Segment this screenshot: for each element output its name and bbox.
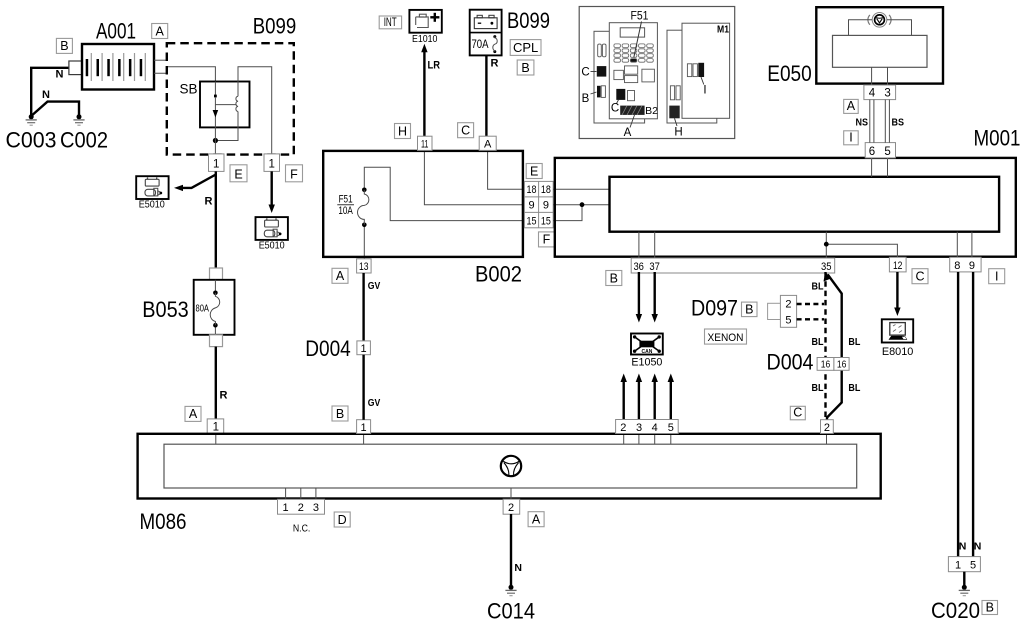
svg-text:1: 1	[955, 559, 961, 571]
svg-text:B: B	[986, 600, 994, 614]
wire GV D004 to M086	[362, 355, 364, 420]
M001 bottom pin row 36 37 ... 35	[631, 258, 835, 273]
wires pins 18/9/15 into M001	[553, 188, 609, 190]
svg-text:F51: F51	[631, 9, 649, 23]
svg-text:BS: BS	[892, 117, 905, 129]
illustration relay cluster	[614, 66, 655, 83]
icon box E8010 (diagnostic socket)	[882, 319, 913, 342]
svg-text:36: 36	[633, 261, 644, 273]
letter box I (pins 8/9)	[989, 269, 1005, 284]
connector D004 pins 16/16	[817, 358, 849, 371]
svg-text:B099: B099	[507, 8, 550, 33]
svg-text:B: B	[60, 39, 68, 53]
pin 8 9 box (M001)	[950, 257, 981, 272]
svg-text:2: 2	[785, 299, 791, 311]
wire A001 pin to B099 box edge	[154, 59, 166, 61]
illustration left panel	[594, 31, 645, 123]
svg-text:A: A	[847, 99, 856, 113]
svg-text:4: 4	[652, 422, 658, 434]
steering module M086 outline	[138, 434, 881, 499]
wires M001 pins 8/9	[956, 232, 958, 258]
wire N to ground C014	[510, 514, 512, 587]
connector grid pins 18/9/15	[524, 181, 553, 227]
wire R from B053 to M086 pin 1	[215, 347, 217, 420]
label F51 with leader line	[631, 9, 649, 58]
svg-text:80A: 80A	[196, 303, 210, 315]
switch contact in SB	[213, 82, 219, 128]
svg-text:E: E	[234, 168, 242, 182]
svg-text:A: A	[532, 513, 541, 527]
svg-text:B: B	[610, 271, 618, 285]
letter box H	[395, 124, 411, 139]
svg-text:15: 15	[527, 215, 537, 227]
fuse 70A inside B099	[472, 35, 498, 53]
junction node on switch wire	[213, 138, 218, 143]
arrow CAN to pin 5 (M086)	[668, 374, 674, 420]
wire F51 fuse to pin 15	[364, 167, 524, 220]
wire A001 lower pin into B099 to SB switch	[154, 67, 215, 82]
svg-text:3: 3	[884, 88, 890, 100]
fuse holder B053 top connector	[210, 268, 223, 280]
svg-text:9: 9	[969, 260, 975, 272]
pin 1 5 box (C020)	[948, 557, 980, 572]
svg-text:15: 15	[541, 215, 551, 227]
svg-text:B: B	[521, 61, 529, 75]
svg-text:F51: F51	[339, 193, 353, 205]
svg-text:5: 5	[884, 146, 890, 158]
letter box B (CPL)	[517, 60, 534, 75]
letter box A (M086 pin1)	[185, 406, 201, 421]
svg-text:37: 37	[649, 261, 660, 273]
box label INT	[379, 16, 401, 29]
pin 6 5 box (M001 top)	[865, 143, 895, 158]
icon box E1010	[409, 10, 441, 33]
svg-text:A: A	[624, 127, 632, 139]
letter box A (A001)	[152, 24, 168, 39]
svg-text:C: C	[581, 67, 589, 79]
letter box B (36/37)	[606, 271, 622, 286]
svg-text:B099: B099	[253, 13, 297, 38]
svg-text:F: F	[290, 168, 298, 182]
svg-text:E8010: E8010	[882, 346, 914, 358]
letter box C (pin 2 M086)	[790, 406, 805, 420]
svg-text:A: A	[189, 407, 198, 421]
illustration connector C (board) with label	[611, 89, 635, 115]
svg-text:A: A	[156, 24, 165, 38]
letter box D	[334, 512, 350, 527]
arrow CAN to pin 2 (M086)	[621, 374, 627, 420]
fuse B053 body	[194, 280, 235, 335]
svg-text:B002: B002	[475, 262, 522, 287]
connector D097 pins 2/5	[768, 295, 797, 327]
solid wire BL from pin 35 with arrow	[824, 272, 842, 420]
letter box A (E050)	[844, 99, 859, 113]
letter box B (M086 pin 1)	[332, 406, 348, 421]
relay coil in SB	[236, 96, 238, 111]
svg-text:16: 16	[837, 359, 847, 371]
svg-text:3: 3	[313, 502, 319, 514]
svg-text:B: B	[745, 302, 753, 316]
letter box F (connector)	[539, 232, 555, 247]
svg-text:C: C	[915, 270, 924, 284]
svg-text:E5010: E5010	[259, 240, 285, 252]
connector D004 pin 1	[357, 341, 371, 355]
svg-text:SB: SB	[179, 82, 197, 97]
svg-text:3: 3	[636, 422, 642, 434]
svg-text:C014: C014	[487, 599, 535, 624]
illustration right back panel	[667, 30, 717, 123]
svg-text:B053: B053	[142, 297, 189, 322]
wire fuse bottom to pin 13	[363, 225, 365, 259]
svg-text:6: 6	[869, 146, 875, 158]
letter box E	[230, 165, 247, 182]
arrow pin 12 to E8010	[894, 272, 900, 316]
illustration connector H with label	[669, 106, 682, 139]
svg-text:E5010: E5010	[139, 199, 165, 211]
illustration lower slots	[670, 86, 680, 100]
letter box C (B002)	[458, 123, 474, 138]
ground C003	[26, 114, 37, 125]
svg-text:N.C.: N.C.	[293, 523, 311, 535]
illustration left panel slots	[598, 44, 606, 57]
svg-text:I: I	[703, 85, 706, 97]
svg-text:A: A	[336, 269, 345, 283]
svg-text:BL: BL	[848, 382, 860, 394]
dashed wire BL from pin 35	[824, 272, 826, 420]
svg-text:12: 12	[893, 260, 903, 272]
pin 1 (B099 right, F)	[264, 154, 280, 172]
svg-text:N: N	[959, 541, 967, 553]
svg-text:13: 13	[359, 261, 369, 273]
svg-text:H: H	[398, 124, 407, 138]
svg-text:A: A	[484, 139, 492, 151]
svg-text:BL: BL	[812, 382, 824, 394]
svg-text:M086: M086	[140, 509, 187, 534]
wire R battery to B002 pin A	[485, 55, 487, 136]
svg-text:N: N	[514, 562, 522, 574]
letter box I (E050)	[844, 131, 859, 145]
illustration connector B2 (hatched) with labels	[620, 105, 658, 139]
arrow CAN to pin 3 (M086)	[636, 374, 642, 420]
horn device E050	[816, 7, 943, 83]
svg-text:C002: C002	[60, 128, 108, 153]
svg-text:2: 2	[508, 502, 514, 514]
letter box E (connector)	[526, 164, 542, 179]
icon box E5010 (right)	[256, 217, 288, 240]
svg-text:2: 2	[620, 422, 626, 434]
letter box B (A001)	[56, 38, 72, 53]
pin A (B002 top)	[479, 136, 496, 150]
twisted pair wire BS	[885, 100, 889, 143]
relay box B099 (dashed)	[167, 43, 294, 154]
fuse element 80A	[196, 280, 220, 335]
wire M001 pin 35 with tap to pin 12	[824, 232, 898, 258]
stubs M086 top pins into module	[215, 434, 217, 444]
svg-text:GV: GV	[368, 397, 381, 409]
svg-text:E1010: E1010	[412, 33, 438, 45]
illustration connector C (left) with label	[581, 66, 606, 78]
wires horn to module	[849, 20, 873, 36]
wire coil bottom to junction	[215, 112, 238, 141]
pin row 1 2 3 (M086 bottom, N.C.)	[278, 499, 325, 514]
svg-text:R: R	[491, 58, 499, 70]
svg-text:M001: M001	[974, 126, 1021, 151]
svg-text:1: 1	[361, 343, 367, 355]
svg-text:N: N	[56, 69, 64, 81]
twisted pair wire NS	[870, 100, 874, 143]
pin 1 (M086 left)	[207, 419, 224, 434]
svg-text:B: B	[336, 407, 344, 421]
fuse holder B053 bottom connector	[210, 335, 223, 347]
svg-text:D: D	[338, 513, 347, 527]
M086 inner module	[164, 444, 857, 488]
wire branch to ground C002 (N)	[31, 102, 79, 117]
letter box B (D097)	[742, 302, 758, 317]
dashed stub pin 5 to BL wire	[797, 318, 824, 320]
SB box	[200, 82, 250, 128]
wire pin A to pin 18	[488, 151, 525, 189]
svg-text:A001: A001	[96, 19, 136, 44]
illustration top slot	[620, 28, 644, 37]
arrow branch to E5010	[174, 175, 216, 192]
svg-text:E1050: E1050	[631, 357, 662, 369]
wire pin 11 to pin 9	[424, 151, 524, 205]
svg-text:4: 4	[869, 88, 876, 100]
stubs M086 bottom pins	[285, 488, 287, 499]
svg-text:C003: C003	[6, 128, 57, 153]
svg-text:2: 2	[824, 422, 830, 434]
svg-text:1: 1	[213, 422, 219, 434]
wires M001 top pins 6/5	[871, 158, 873, 177]
wire N pin 9 to C020	[972, 272, 974, 557]
svg-text:INT: INT	[384, 17, 397, 29]
svg-text:BL: BL	[848, 336, 860, 348]
pin 1 (B099 left, E)	[209, 154, 225, 172]
battery/fuse B099 (70A)	[470, 10, 502, 56]
ground C002	[73, 114, 84, 125]
svg-text:H: H	[674, 127, 682, 139]
pin 2 (M086 top right)	[821, 420, 834, 434]
svg-text:5: 5	[970, 559, 976, 571]
svg-text:B2: B2	[645, 105, 658, 117]
illustration fuse board	[609, 23, 657, 119]
svg-text:D004: D004	[305, 336, 351, 361]
svg-text:5: 5	[785, 315, 791, 327]
svg-text:2: 2	[298, 502, 304, 514]
arrow CAN from pin 36	[636, 272, 642, 323]
pin 2 (M086 bottom)	[503, 499, 520, 514]
box label XENON	[705, 329, 747, 344]
illustration connector B (striped) with label	[582, 86, 606, 105]
body computer M001 outline	[555, 158, 1016, 257]
svg-text:E: E	[530, 164, 538, 178]
steering wheel icon	[501, 456, 521, 476]
svg-text:11: 11	[421, 139, 429, 151]
svg-text:I: I	[995, 270, 998, 284]
svg-text:C: C	[611, 103, 619, 115]
wire R from pin 1 down	[215, 171, 217, 268]
svg-text:1: 1	[213, 159, 219, 171]
svg-text:5: 5	[668, 422, 674, 434]
connector stub left of A001	[69, 61, 82, 75]
svg-text:I: I	[849, 131, 852, 145]
svg-text:18: 18	[527, 184, 537, 196]
illustration fuse grid	[614, 44, 653, 62]
battery A001	[82, 44, 154, 90]
wire GV B002 pin13 to D004	[362, 273, 364, 341]
svg-text:M1: M1	[717, 24, 729, 36]
pin 4 3 box (E050)	[864, 85, 896, 100]
arrow from pin 1 (F) down to E5010	[269, 171, 275, 213]
svg-text:C: C	[461, 124, 470, 138]
arrow wire LR pin 11 to E1010	[421, 44, 427, 136]
svg-text:XENON: XENON	[708, 332, 744, 344]
svg-text:C020: C020	[931, 598, 980, 623]
wire coil top to right pin 1	[238, 67, 272, 154]
arrow CAN to pin 4 (M086)	[652, 374, 658, 420]
illustration connector I with label	[687, 63, 706, 97]
arrow CAN from pin 37	[652, 272, 658, 323]
svg-text:F: F	[543, 233, 551, 247]
dashed stub pin 2 to BL wire	[797, 303, 824, 305]
svg-text:16: 16	[821, 359, 831, 371]
svg-text:35: 35	[821, 261, 832, 273]
svg-text:8: 8	[954, 260, 960, 272]
illustration body computer M1	[682, 23, 730, 118]
svg-text:D004: D004	[767, 350, 814, 375]
fusebox location illustration frame	[579, 7, 735, 139]
icon box E1050 (CAN network)	[631, 334, 663, 356]
svg-text:10A: 10A	[338, 205, 353, 217]
svg-text:9: 9	[528, 200, 534, 212]
letter box F	[286, 165, 303, 182]
wire switch down to pin 1	[214, 127, 216, 154]
pin 2 3 4 5 box (M086 top)	[616, 420, 679, 434]
svg-text:LR: LR	[428, 60, 441, 72]
svg-text:BL: BL	[812, 336, 824, 348]
junction box B002	[323, 151, 523, 257]
pin 1 (M086 top B)	[357, 420, 371, 434]
svg-text:C: C	[793, 406, 802, 420]
svg-text:1: 1	[283, 502, 289, 514]
wire N pin 8 to C020	[957, 272, 959, 557]
pin 11 (B002 top)	[418, 136, 433, 150]
icon box E5010 (left)	[136, 176, 168, 199]
svg-text:NS: NS	[856, 117, 869, 129]
wire switch to coil inside SB	[215, 104, 236, 106]
wire A001 to ground C003 (N)	[31, 68, 69, 117]
svg-text:GV: GV	[368, 280, 381, 292]
svg-text:1: 1	[361, 422, 367, 434]
junction node 9/15	[580, 202, 585, 207]
svg-text:1: 1	[268, 159, 274, 171]
ground C020	[959, 572, 970, 596]
box label CPL	[510, 40, 541, 56]
svg-text:BL: BL	[812, 281, 824, 293]
svg-text:E050: E050	[767, 61, 812, 86]
svg-text:CAN: CAN	[641, 349, 652, 355]
letter box C (pin 12)	[912, 269, 928, 284]
svg-text:N: N	[974, 541, 982, 553]
fuse F51 10A	[337, 188, 369, 228]
svg-text:CPL: CPL	[513, 40, 538, 55]
letter box B (C020)	[982, 600, 998, 614]
wires module to pins 4/3	[871, 67, 873, 85]
horn icon (steering wheel with sound waves)	[868, 12, 891, 27]
letter box A (pin13)	[332, 268, 348, 283]
pin 12 (M001)	[889, 257, 906, 272]
svg-text:R: R	[220, 390, 228, 402]
svg-text:D097: D097	[691, 296, 738, 321]
svg-text:R: R	[205, 196, 213, 208]
E050 inner module	[833, 35, 928, 67]
letter box A (C014)	[528, 512, 544, 527]
wires M001 bottom pins 36/37	[638, 232, 640, 258]
svg-text:B: B	[582, 93, 590, 105]
svg-text:9: 9	[543, 200, 549, 212]
svg-text:70A: 70A	[472, 39, 489, 51]
svg-text:N: N	[42, 89, 50, 101]
ground C014	[505, 585, 516, 596]
pin 13 (B002 bottom)	[357, 259, 372, 273]
svg-text:18: 18	[541, 184, 551, 196]
M001 inner module	[610, 177, 1000, 232]
